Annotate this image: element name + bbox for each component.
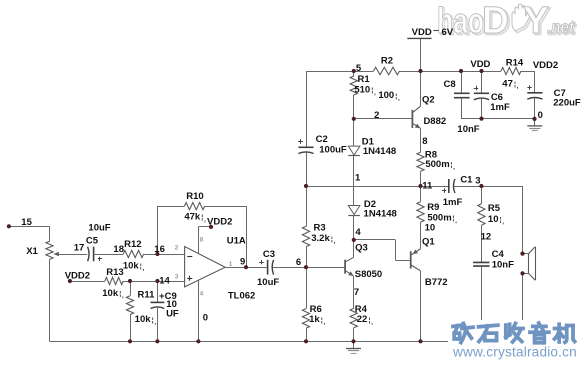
svg-text:510: 510 [354, 85, 370, 96]
svg-text:VDD: VDD [470, 59, 490, 70]
svg-text:Q1: Q1 [422, 236, 435, 247]
svg-text:VDD2: VDD2 [207, 217, 232, 228]
svg-text:100: 100 [378, 90, 394, 101]
svg-text:18: 18 [113, 244, 124, 255]
svg-text:B772: B772 [425, 277, 448, 288]
svg-text:VDD: VDD [412, 27, 432, 38]
svg-text:R9: R9 [427, 202, 439, 213]
svg-text:0: 0 [538, 110, 543, 121]
svg-text:15: 15 [21, 217, 32, 228]
svg-text:16: 16 [154, 244, 165, 255]
svg-text:X1: X1 [26, 246, 38, 257]
svg-text:47: 47 [502, 78, 513, 89]
svg-text:,: , [154, 319, 156, 326]
svg-text:R3: R3 [314, 222, 326, 233]
svg-text:R2: R2 [381, 55, 393, 66]
svg-text:UF: UF [166, 309, 179, 320]
svg-text:R13: R13 [106, 267, 123, 278]
svg-text:5: 5 [356, 63, 362, 74]
svg-text:VDD2: VDD2 [65, 271, 90, 282]
svg-text:6: 6 [296, 257, 301, 268]
svg-text:3: 3 [475, 175, 480, 186]
svg-text:Y: Y [523, 0, 549, 42]
svg-text:VDD2: VDD2 [533, 60, 558, 71]
svg-text:www.crystalradio.cn: www.crystalradio.cn [452, 344, 577, 359]
svg-text:Q2: Q2 [422, 94, 435, 105]
svg-text:C4: C4 [492, 249, 505, 260]
svg-text:1k: 1k [309, 314, 320, 325]
svg-text:R11: R11 [138, 290, 156, 301]
svg-text:,: , [398, 95, 400, 102]
svg-text:12: 12 [481, 231, 492, 242]
svg-text:C1: C1 [460, 174, 473, 185]
svg-text:C2: C2 [316, 134, 328, 145]
svg-text:,: , [323, 319, 325, 326]
svg-text:500m: 500m [425, 159, 449, 170]
svg-text:,: , [371, 319, 373, 326]
svg-text:R5: R5 [488, 203, 501, 214]
svg-text:100uF: 100uF [319, 144, 347, 155]
svg-text:,: , [122, 293, 124, 300]
svg-text:17: 17 [74, 243, 85, 254]
svg-text:1: 1 [229, 261, 233, 268]
svg-text:10nF: 10nF [457, 124, 479, 135]
svg-text:R14: R14 [506, 57, 524, 68]
svg-text:R10: R10 [186, 191, 203, 202]
svg-text:10uF: 10uF [257, 277, 279, 288]
svg-text:TL062: TL062 [228, 290, 255, 301]
svg-text:U1A: U1A [227, 235, 246, 246]
svg-text:1N4148: 1N4148 [363, 146, 396, 157]
svg-text:,: , [502, 219, 504, 226]
svg-text:0: 0 [203, 312, 208, 323]
svg-text:4: 4 [355, 227, 361, 238]
svg-text:10uF: 10uF [88, 222, 110, 233]
svg-text:Q3: Q3 [355, 242, 368, 253]
svg-text:6V: 6V [441, 27, 453, 38]
svg-text:2: 2 [175, 245, 179, 252]
svg-text:1mF: 1mF [443, 197, 463, 208]
svg-text:2: 2 [374, 110, 379, 121]
svg-text:10: 10 [425, 222, 436, 233]
svg-text:10k: 10k [102, 288, 119, 299]
svg-text:,: , [517, 83, 519, 90]
svg-text:7: 7 [354, 287, 359, 298]
svg-text:11: 11 [422, 180, 433, 191]
svg-text:10k: 10k [135, 314, 152, 325]
svg-text:.net: .net [547, 17, 575, 37]
svg-text:1: 1 [355, 173, 361, 184]
svg-text:220uF: 220uF [553, 98, 581, 109]
svg-text:D: D [482, 0, 509, 42]
svg-text:10nF: 10nF [492, 259, 514, 270]
svg-text:10k: 10k [123, 260, 140, 271]
svg-text:,: , [204, 216, 206, 223]
svg-text:1N4148: 1N4148 [364, 209, 397, 220]
svg-text:,: , [453, 164, 455, 171]
svg-text:47k: 47k [184, 212, 201, 223]
svg-text:10: 10 [488, 214, 499, 225]
svg-text:9: 9 [240, 256, 245, 267]
svg-text:C3: C3 [263, 249, 275, 260]
svg-text:C8: C8 [444, 79, 456, 90]
svg-text:D882: D882 [423, 116, 446, 127]
svg-text:,: , [455, 217, 457, 224]
svg-text:3.2k: 3.2k [311, 233, 330, 244]
svg-text:3: 3 [175, 274, 179, 281]
svg-text:1mF: 1mF [490, 102, 510, 113]
svg-text:8: 8 [200, 237, 204, 244]
svg-text:14: 14 [159, 276, 170, 287]
svg-text:,: , [374, 89, 376, 96]
svg-text:S8050: S8050 [355, 269, 382, 280]
svg-text:,: , [334, 238, 336, 245]
svg-text:R12: R12 [124, 239, 141, 250]
svg-text:C5: C5 [86, 236, 99, 247]
svg-text:,: , [143, 265, 145, 272]
svg-text:R1: R1 [358, 74, 371, 85]
svg-text:8: 8 [422, 136, 427, 147]
svg-text:4: 4 [200, 291, 204, 298]
svg-text:22: 22 [357, 314, 368, 325]
